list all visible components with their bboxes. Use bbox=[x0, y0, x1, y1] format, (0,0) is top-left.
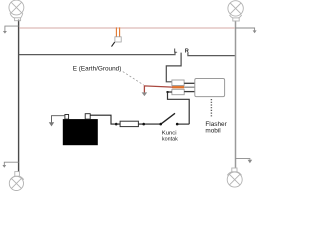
wire connector bottom terminal to ignition switch bbox=[167, 91, 190, 124]
ground rear-left bbox=[2, 162, 18, 168]
switch S1 hazard tap on pink bus (two orange pins, plug body, lever) bbox=[112, 27, 122, 46]
ground front-right bbox=[235, 28, 257, 33]
svg-text:mobil: mobil bbox=[205, 128, 220, 135]
leader dashed from E label to earth wire bbox=[123, 72, 144, 85]
wire left bus (front-left lamp feed, vertical) bbox=[18, 20, 20, 172]
wire L (left-turn bus horizontal) bbox=[19, 52, 175, 55]
junction dot right of fuse bbox=[142, 123, 145, 126]
wire right bus (front-right lamp feed, vertical) bbox=[235, 21, 237, 168]
battery BAT1 (solid black) bbox=[63, 119, 98, 145]
battery terminal negative (left) bbox=[65, 115, 69, 120]
wire earth lead (dark red) with ground arrow bbox=[142, 86, 173, 96]
pin label R bbox=[185, 49, 189, 55]
label Flasher mobil bbox=[205, 121, 227, 135]
wire hazard/flasher feed bus (pink horizontal) bbox=[19, 27, 235, 29]
switch S2 kunci kontak (ignition switch) bbox=[159, 113, 189, 125]
lamp L3 rear-left (bulb with X, inverted) bbox=[9, 172, 23, 191]
svg-text:E (Earth/Ground): E (Earth/Ground) bbox=[73, 65, 122, 72]
ground front-left bbox=[3, 26, 19, 33]
lamp L4 rear-right (bulb with X, inverted) bbox=[227, 168, 242, 187]
wire battery positive to fuse bbox=[90, 115, 120, 124]
junction dot left of fuse bbox=[115, 123, 118, 126]
connector terminal block bottom bbox=[172, 89, 184, 94]
label E (Earth/Ground) bbox=[73, 65, 122, 72]
ground battery negative bbox=[49, 116, 65, 127]
wire fuse to switch bbox=[138, 123, 160, 125]
fuse F1 bbox=[120, 121, 138, 126]
battery terminal positive (right) bbox=[85, 114, 90, 119]
connector terminal block top bbox=[172, 80, 184, 86]
leader dotted from flasher box to label bbox=[210, 99, 212, 118]
pin label L bbox=[174, 49, 178, 55]
wire orange jumper through connector (earth lead) bbox=[172, 86, 184, 88]
flasher pin stub bottom bbox=[184, 91, 195, 93]
wire turn-signal common branch (to connector top terminal) bbox=[166, 53, 181, 82]
flasher unit U1 box bbox=[195, 79, 225, 97]
svg-text:kontak: kontak bbox=[162, 137, 178, 143]
flasher pin stub top bbox=[184, 82, 195, 84]
label Kunci kontak bbox=[162, 131, 178, 143]
flasher pin stub middle bbox=[184, 86, 195, 88]
svg-text:L: L bbox=[174, 49, 178, 55]
lamp L1 front-left (bulb with X) bbox=[9, 0, 24, 21]
lamp L2 front-right (bulb with X) bbox=[228, 1, 243, 21]
wire R (right-turn feed to right bus) bbox=[188, 53, 235, 56]
ground rear-right bbox=[236, 159, 253, 164]
